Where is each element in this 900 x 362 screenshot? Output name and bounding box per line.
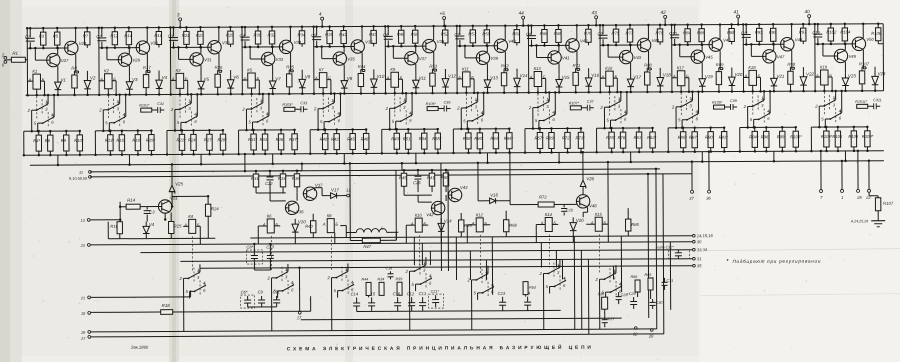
switch contact S6a <box>390 107 395 109</box>
svg-text:К16: К16 <box>605 66 613 71</box>
diode V17 <box>331 193 337 199</box>
resistor R34 <box>301 27 303 31</box>
capacitor C311 <box>873 103 875 109</box>
resistor R31 <box>255 171 257 174</box>
switch contact S10b <box>682 119 687 121</box>
wire global rail net B y164 <box>30 161 884 165</box>
terminal 31 <box>693 257 696 260</box>
wire block A relay rails <box>258 225 267 227</box>
diode V5 <box>200 76 202 81</box>
resistor R1 <box>11 57 25 62</box>
wire riser x478 <box>477 163 479 201</box>
svg-text:С18: С18 <box>385 266 393 270</box>
svg-text:R22*: R22* <box>176 137 186 142</box>
wire group 2 top rail <box>95 130 151 132</box>
terminal 9,10,58,59 <box>89 175 92 178</box>
terminal 32 <box>634 327 637 330</box>
resistor R103* <box>284 107 295 111</box>
resistor R35 <box>288 70 290 74</box>
svg-text:R64*: R64* <box>504 136 514 141</box>
resistor R105* <box>427 107 438 111</box>
svg-text:R33: R33 <box>260 137 268 142</box>
resistor R18 <box>161 310 173 315</box>
capacitor C13 <box>422 297 424 302</box>
svg-text:C4: C4 <box>240 33 246 38</box>
svg-text:V24: V24 <box>878 71 886 76</box>
inductor L <box>356 229 386 233</box>
svg-text:33,34: 33,34 <box>697 247 708 252</box>
wire V33 emitter <box>272 65 274 76</box>
wire V43 base feed <box>607 45 609 57</box>
wire V32 emitter <box>218 53 220 72</box>
wire group 4 to rail B <box>272 154 274 164</box>
wire S7a to rail <box>477 93 479 102</box>
svg-text:R14: R14 <box>124 33 132 38</box>
resistor R51 <box>407 129 409 133</box>
svg-text:R84: R84 <box>683 30 691 35</box>
wire bottom rail drops <box>257 238 259 244</box>
svg-text:V33: V33 <box>276 57 284 62</box>
svg-text:R34: R34 <box>298 32 306 37</box>
svg-text:С12: С12 <box>407 291 415 296</box>
resistor R78 <box>622 128 624 132</box>
capacitor C12 <box>817 24 819 33</box>
wire V45 base feed <box>679 45 681 57</box>
wire bottom rail 30 <box>90 242 692 245</box>
resistor R14 <box>126 204 140 209</box>
transistor V30 <box>136 41 149 54</box>
wire emitter to R71 <box>576 67 580 69</box>
switch contact S6b <box>396 120 401 122</box>
svg-text:R100*: R100* <box>790 134 802 139</box>
svg-text:41: 41 <box>734 9 740 14</box>
terminal 35 <box>693 264 696 267</box>
svg-text:R41: R41 <box>427 175 435 180</box>
svg-text:Зак.1860: Зак.1860 <box>131 345 149 350</box>
svg-text:V19: V19 <box>705 74 713 79</box>
wire V35 collector <box>343 47 345 53</box>
wire stage 10 base rail <box>672 44 709 46</box>
resistor R44 <box>360 69 362 73</box>
svg-text:R16: R16 <box>154 33 162 38</box>
wire V39 emitter <box>486 64 488 75</box>
diode V24 <box>874 71 876 77</box>
svg-text:R40*: R40* <box>320 137 330 142</box>
wire group 1 left drop <box>23 131 25 155</box>
svg-text:C8: C8 <box>526 32 532 37</box>
wire V43 emitter <box>630 63 632 74</box>
wire stage 7 base rail <box>457 45 494 47</box>
capacitor C14 <box>356 297 358 302</box>
wire S8b links <box>538 121 540 129</box>
diode V19 <box>701 74 703 79</box>
wire riser x402 <box>401 163 403 170</box>
wire V39 collector <box>486 46 488 52</box>
resistor R98 <box>789 67 791 71</box>
capacitor C8* <box>246 250 262 264</box>
wire group 8 to rail B <box>558 152 560 162</box>
terminal 3 <box>179 18 182 21</box>
svg-text:А,24,25,26: А,24,25,26 <box>850 219 868 223</box>
wire group 1 to rail B <box>57 155 59 165</box>
svg-text:36: 36 <box>706 196 711 201</box>
svg-text:К14: К14 <box>545 212 553 217</box>
svg-text:C3: C3 <box>149 210 155 215</box>
svg-text:R109*: R109* <box>712 101 723 105</box>
resistor R87 <box>694 128 696 132</box>
switch contact S2b <box>109 122 114 124</box>
wire V27 emitter <box>57 66 59 77</box>
transistor V37 <box>303 187 316 200</box>
wire S7b links <box>466 121 468 129</box>
wire group 5 left drop <box>309 130 311 154</box>
svg-text:R48: R48 <box>397 32 405 37</box>
svg-text:R79: R79 <box>656 30 664 35</box>
resistor R60 <box>479 129 481 133</box>
wire V28 emitter <box>75 54 77 73</box>
diode V3 <box>128 77 130 82</box>
svg-text:R3: R3 <box>39 34 45 39</box>
svg-text:V41: V41 <box>562 55 569 60</box>
relay К13 <box>534 72 542 87</box>
dashed link relay К3 <box>179 95 181 119</box>
wire S4b links <box>251 122 253 130</box>
wire S5b links <box>323 122 325 130</box>
svg-text:R94*: R94* <box>749 134 759 139</box>
terminal 11 <box>89 170 92 173</box>
svg-text:R15: R15 <box>116 138 124 143</box>
switch contact S7b <box>467 120 472 122</box>
resistor R54 <box>423 129 425 133</box>
switch contact group x414 <box>409 270 414 272</box>
svg-text:32: 32 <box>633 332 638 337</box>
wire emitter to R107 <box>862 66 866 68</box>
svg-text:C33: C33 <box>300 101 308 105</box>
diode V13 <box>486 75 488 80</box>
svg-text:R72: R72 <box>562 135 570 140</box>
resistor R107 <box>868 192 870 195</box>
capacitor C4 <box>244 27 246 36</box>
svg-text:R54: R54 <box>419 136 427 141</box>
capacitor C6* <box>241 295 255 308</box>
svg-text:V36: V36 <box>296 209 304 214</box>
svg-text:R58*: R58* <box>463 136 473 141</box>
resistor R59 <box>486 26 488 30</box>
svg-text:R26: R26 <box>215 65 223 70</box>
resistor R33 <box>282 171 284 174</box>
wire V43 collector <box>629 45 631 51</box>
relay К16 <box>606 71 614 86</box>
relay К10 <box>415 218 422 232</box>
terminal 2 <box>4 56 7 59</box>
svg-text:V30: V30 <box>150 41 158 46</box>
capacitor C31 <box>664 278 666 282</box>
switch contact group x604 <box>600 278 605 280</box>
svg-text:R87: R87 <box>689 135 697 140</box>
resistor R31 <box>253 130 255 134</box>
svg-text:V9: V9 <box>347 76 353 81</box>
diode V21 <box>773 73 775 78</box>
svg-text:R88: R88 <box>727 30 735 35</box>
relay К1 <box>33 74 41 89</box>
wire switch group x548 drops <box>542 274 544 330</box>
dashed link relay К17 <box>680 93 682 117</box>
svg-text:R47: R47 <box>363 244 371 249</box>
switch contact group x336 <box>332 277 337 279</box>
transistor V31 <box>190 53 203 66</box>
relay К14 <box>545 217 552 231</box>
wire S1a to rail <box>47 95 49 104</box>
resistor R8 <box>73 71 75 75</box>
svg-text:К8: К8 <box>327 213 332 218</box>
resistor R44 <box>366 282 371 295</box>
wire emitter to R89 <box>719 67 723 69</box>
resistor R16 <box>158 28 160 32</box>
wire group 6 left drop <box>381 129 383 153</box>
transistor V27 <box>47 53 60 66</box>
svg-text:R36: R36 <box>276 137 284 142</box>
switch contact S8b <box>539 120 544 122</box>
svg-text:R8: R8 <box>71 65 77 70</box>
svg-text:С16: С16 <box>393 291 401 296</box>
wire V37 emitter <box>415 64 417 75</box>
svg-text:R55*: R55* <box>432 136 442 141</box>
switch contact group x276 <box>272 277 277 279</box>
svg-text:C12: C12 <box>812 30 820 35</box>
svg-text:К15: К15 <box>595 212 603 217</box>
switch contact S1b <box>38 122 43 124</box>
svg-text:С23: С23 <box>498 291 506 296</box>
wire group 11 left drop <box>739 127 741 151</box>
resistor R43 <box>373 26 375 30</box>
svg-text:C39: C39 <box>730 99 737 103</box>
relay К9 <box>391 72 399 87</box>
svg-text:C22: C22 <box>265 181 273 186</box>
resistor R72 <box>566 128 568 132</box>
wire stage 9 left rail <box>599 25 601 92</box>
svg-text:R69: R69 <box>546 135 554 140</box>
svg-text:R4*: R4* <box>33 138 40 143</box>
resistor R38 <box>296 171 298 174</box>
resistor R18 <box>137 131 139 135</box>
capacitor C24 <box>527 297 529 302</box>
svg-text:R68: R68 <box>554 31 562 36</box>
resistor R48 <box>400 26 402 30</box>
wire input to stage 1 <box>7 59 11 61</box>
wire relay К11 leads <box>457 78 462 80</box>
wire V41 collector <box>558 45 560 51</box>
svg-text:R72: R72 <box>539 194 547 199</box>
capacitor C16 <box>397 297 399 302</box>
capacitor C29 <box>633 297 635 301</box>
svg-text:R13*: R13* <box>105 138 115 143</box>
resistor R53 <box>523 282 528 295</box>
wire group 8 top rail <box>525 127 581 129</box>
svg-text:42: 42 <box>661 10 667 15</box>
svg-text:V38: V38 <box>437 39 445 44</box>
resistor R102 <box>830 24 832 28</box>
wire stage 10 left rail <box>671 25 673 92</box>
wire riser x510 <box>509 153 511 201</box>
wire group 7 left drop <box>452 129 454 153</box>
resistor R99 <box>781 127 783 131</box>
svg-text:V29: V29 <box>132 58 140 63</box>
svg-text:V16: V16 <box>591 73 599 78</box>
wire terminal 28 riser <box>857 151 859 189</box>
svg-text:29: 29 <box>80 331 86 335</box>
wire stage 8 base rail <box>528 44 565 46</box>
svg-text:V39: V39 <box>490 56 498 61</box>
svg-text:R18: R18 <box>162 303 171 308</box>
wire V35 base feed <box>321 47 323 59</box>
svg-text:28: 28 <box>856 195 862 200</box>
svg-text:К18: К18 <box>748 65 756 70</box>
wire group 10 top rail <box>668 127 724 129</box>
resistor R90 <box>710 128 712 132</box>
wire emitter to R35 <box>289 69 293 71</box>
svg-text:V4: V4 <box>149 222 155 227</box>
svg-text:К11: К11 <box>462 66 469 71</box>
wire relay К2 leads <box>99 80 104 82</box>
svg-text:R85*: R85* <box>678 135 688 140</box>
transistor V45 <box>691 50 704 63</box>
svg-text:R60: R60 <box>474 136 482 141</box>
dashed link relay К13 <box>537 94 539 118</box>
resistor R72 <box>538 202 554 207</box>
resistor R86 <box>648 278 653 290</box>
terminal 13 <box>87 218 90 221</box>
wire S5a to rail <box>333 94 335 103</box>
svg-text:R97: R97 <box>799 30 807 35</box>
svg-text:V46: V46 <box>723 38 731 43</box>
wire V45 collector <box>701 45 703 51</box>
switch contact group x188 <box>184 277 189 279</box>
terminal 28b <box>650 329 653 332</box>
svg-text:R107: R107 <box>883 201 894 206</box>
svg-text:43: 43 <box>592 10 598 15</box>
wire switch group x414 drops <box>408 271 410 330</box>
resistor R103 <box>825 127 827 131</box>
resistor R42 <box>336 130 338 134</box>
capacitor C10 <box>269 250 271 255</box>
capacitor C10 <box>674 25 676 34</box>
terminal 41 <box>737 15 740 18</box>
transistor V37 <box>405 51 418 64</box>
capacitor C37 <box>586 105 588 111</box>
wire relay К17 leads <box>672 77 677 79</box>
wire relay К1 leads <box>27 80 32 82</box>
wire riser x608 <box>607 162 609 224</box>
svg-text:R85: R85 <box>631 222 639 227</box>
svg-text:C9: C9 <box>598 31 604 36</box>
wire mid cluster links <box>357 310 561 311</box>
terminal 33,34 <box>693 248 696 251</box>
wire S11a to rail <box>763 91 765 100</box>
svg-text:R45: R45 <box>347 136 355 141</box>
terminal 27 <box>88 335 91 338</box>
svg-text:R90: R90 <box>705 135 713 140</box>
svg-text:V35: V35 <box>347 56 355 61</box>
wire S8a to rail <box>548 92 550 101</box>
svg-text:R98: R98 <box>787 62 795 67</box>
wire V33 collector <box>272 47 274 53</box>
wire V31 collector <box>200 47 202 53</box>
wire switch group x604 drops <box>599 279 601 329</box>
wire V49 emitter <box>844 62 846 73</box>
wire V44 emitter <box>648 51 650 70</box>
switch contact group x548 <box>543 272 548 274</box>
svg-text:V43: V43 <box>460 185 468 190</box>
svg-text:V14: V14 <box>520 73 528 78</box>
wire middle-left bottom rail <box>108 237 215 240</box>
svg-text:R80: R80 <box>644 62 652 67</box>
svg-text:R82*: R82* <box>647 135 657 140</box>
svg-text:С25: С25 <box>566 208 574 212</box>
wire V28 collector <box>75 28 77 42</box>
wire S2a to rail <box>119 95 121 104</box>
switch contact S11a <box>748 105 753 107</box>
diode V18 <box>659 72 661 78</box>
resistor R62 <box>503 69 505 73</box>
svg-text:C3: C3 <box>168 33 174 38</box>
resistor R15 <box>121 131 123 135</box>
wire V47 base feed <box>750 44 752 56</box>
wire relay К5 leads <box>242 79 247 81</box>
wire emitter to R44 <box>361 68 365 70</box>
wire stage 4 base rail <box>242 46 279 48</box>
capacitor C25 <box>417 170 419 175</box>
svg-text:V45: V45 <box>705 55 713 60</box>
dashed link relay К18 <box>752 92 754 116</box>
svg-text:R38: R38 <box>292 176 300 181</box>
svg-text:R35: R35 <box>286 64 294 69</box>
svg-text:V4: V4 <box>162 75 168 80</box>
wire C8 C10 links <box>253 244 255 250</box>
svg-text:C311: C311 <box>873 98 882 102</box>
transistor V44 <box>637 38 650 51</box>
wire V36 emitter <box>361 52 363 71</box>
resistor R9 <box>65 131 67 135</box>
svg-text:К5: К5 <box>247 68 252 73</box>
dashed link К6 switch <box>270 236 272 272</box>
svg-text:V47: V47 <box>777 54 785 59</box>
svg-text:V48: V48 <box>795 37 803 42</box>
resistor R58 <box>467 129 469 133</box>
svg-text:R91*: R91* <box>719 135 729 140</box>
resistor R4 <box>38 131 40 135</box>
dashed link relay К16 <box>609 93 611 117</box>
svg-text:R44: R44 <box>362 277 369 281</box>
wire emitter to R80 <box>647 67 651 69</box>
svg-text:С6*: С6* <box>241 290 248 295</box>
diode V7 <box>272 76 274 81</box>
svg-text:R46*: R46* <box>361 136 371 141</box>
capacitor C39 <box>730 104 732 110</box>
diode V16 <box>490 198 496 204</box>
svg-text:C1: C1 <box>25 34 30 39</box>
transistor V43 <box>448 188 461 201</box>
svg-text:R9: R9 <box>61 138 67 143</box>
wire group 4 left drop <box>238 130 240 154</box>
resistor R69 <box>550 128 552 132</box>
svg-text:R105*: R105* <box>426 102 437 106</box>
svg-text:R57: R57 <box>468 31 476 36</box>
relay К4 <box>189 219 196 233</box>
svg-text:С11: С11 <box>273 289 280 294</box>
resistor R15 <box>169 221 174 233</box>
svg-text:V20: V20 <box>576 218 584 223</box>
capacitor C2 <box>101 28 103 37</box>
